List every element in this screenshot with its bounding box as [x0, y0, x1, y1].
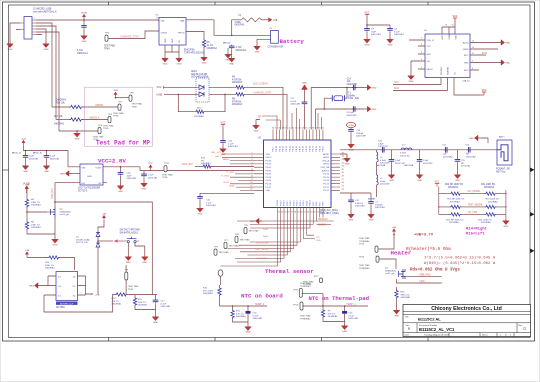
svg-text:MECD2A: MECD2A [404, 164, 413, 167]
ground GND ntc board [245, 324, 252, 333]
svg-text:PCBANT_SR: PCBANT_SR [496, 168, 510, 171]
ground GND shunt 2 [416, 173, 423, 182]
svg-text:J1 MICRO_USB: J1 MICRO_USB [33, 8, 52, 11]
svg-text:SWD_BAT: SWD_BAT [51, 187, 54, 199]
power VCC rf [435, 181, 440, 186]
svg-text:P0.13: P0.13 [300, 200, 302, 206]
svg-text:0201R/A2: 0201R/A2 [450, 200, 461, 203]
svg-text:1pF: 1pF [443, 154, 447, 156]
svg-text:P0.11: P0.11 [279, 145, 281, 151]
svg-text:P0.16: P0.16 [290, 200, 292, 206]
svg-text:1500pF: 1500pF [375, 204, 383, 206]
border zone tick top [109, 2, 429, 5]
fuse F1 [235, 15, 262, 27]
svg-text:VOUT: VOUT [95, 168, 102, 170]
svg-text:DP: DP [258, 117, 262, 119]
ground GND under TP4 wire [74, 130, 81, 140]
svg-text:R(heater)=5.5 Ohm: R(heater)=5.5 Ohm [406, 247, 451, 252]
title file label [405, 315, 410, 318]
net label SWD_BAT 2 [182, 163, 194, 166]
svg-text:SDA/SA0: SDA/SA0 [447, 66, 450, 75]
svg-text:0201L-N2: 0201L-N2 [400, 155, 410, 157]
net label SDA [394, 87, 399, 90]
svg-text:0402R/A1: 0402R/A1 [201, 162, 212, 165]
svg-text:P0.23: P0.23 [323, 184, 329, 186]
svg-text:0402C/A1: 0402C/A1 [29, 157, 39, 160]
svg-text:19: 19 [297, 212, 299, 214]
net arrow to SW [114, 239, 125, 243]
svg-text:MECD2A: MECD2A [376, 164, 385, 167]
svg-text:AVDD: AVDD [323, 153, 329, 156]
svg-text:ANT2: ANT2 [323, 156, 329, 159]
power VCC top [365, 12, 370, 17]
label LED1 [191, 71, 208, 79]
label Thermal sensor [265, 268, 314, 275]
resistor R16 10k [52, 99, 83, 109]
svg-text:TP11: TP11 [164, 163, 170, 165]
resistor R18b [485, 192, 497, 195]
wire ldo rail [24, 146, 77, 167]
capacitor C socket 0.1uF [33, 151, 60, 163]
connector J1 MICRO_USB [20, 17, 36, 40]
svg-text:RES: RES [464, 63, 469, 65]
power +UB diode [98, 213, 107, 232]
svg-text:0.1uF: 0.1uF [348, 315, 354, 317]
IC U2 MCU QFN-48 [264, 140, 332, 208]
svg-text:MECD2: MECD2 [223, 43, 231, 45]
svg-text:0402C/A1: 0402C/A1 [127, 177, 138, 180]
power VCC below U4 [480, 90, 487, 95]
testpad TP1 [125, 265, 139, 295]
wire ladder rails [438, 187, 507, 219]
svg-text:P0.03: P0.03 [266, 174, 272, 176]
testpad TP5 [129, 93, 142, 109]
wire SCL [393, 84, 441, 86]
svg-text:220K 1%: 220K 1% [45, 265, 54, 267]
svg-text:P0.15: P0.15 [293, 145, 295, 151]
wire U5 gnd pins [165, 45, 179, 56]
svg-text:LGA-16: LGA-16 [462, 80, 470, 83]
svg-text:SDI/SDO: SDI/SDO [441, 66, 443, 75]
wire LED2 to U2 [245, 94, 287, 129]
svg-text:0201C/A2: 0201C/A2 [461, 165, 471, 168]
label J2 part [268, 47, 285, 49]
ground GND under R40 [393, 308, 400, 317]
transistor Q1 [399, 269, 406, 279]
svg-text:P0.12: P0.12 [283, 145, 285, 151]
svg-text:I=3.7/(5.5+0.062+0.15)=0.645 A: I=3.7/(5.5+0.062+0.15)=0.645 A [424, 255, 496, 260]
svg-text:MECD_A: MECD_A [33, 151, 42, 154]
title company [431, 306, 502, 312]
resistor R8 220K [25, 221, 41, 230]
label NTC on board [241, 293, 283, 300]
svg-text:VDD: VDD [266, 154, 271, 156]
svg-text:GND: GND [118, 191, 123, 193]
capacitor C7 4.7uF at BAT [223, 43, 247, 57]
wire J1 D- down [36, 26, 56, 120]
svg-text:9: 9 [472, 61, 473, 63]
svg-text:17: 17 [291, 212, 293, 214]
ground GND under C3 [364, 37, 371, 46]
ground GND under cap b [22, 164, 29, 173]
label Rheater [406, 247, 451, 252]
net label TEST_MODE2 [255, 249, 269, 251]
wire R12 to U2 [212, 165, 254, 167]
svg-text:TEST PAD: TEST PAD [104, 45, 115, 48]
power arrow at TP11 rail [148, 163, 153, 171]
svg-text:VCC: VCC [453, 16, 458, 18]
svg-text:Chicony Electronics Co., Ltd: Chicony Electronics Co., Ltd [431, 306, 502, 312]
svg-text:LED1: LED1 [191, 71, 197, 73]
switch SW1 tact [125, 237, 145, 255]
svg-text:0402C/A1: 0402C/A1 [228, 145, 239, 148]
svg-text:GND: GND [372, 88, 377, 90]
svg-text:0201C/A2: 0201C/A2 [443, 155, 454, 158]
svg-text:+UB: +UB [25, 250, 30, 252]
svg-text:GND: GND [254, 130, 259, 132]
wire J1 gnd [16, 29, 46, 42]
svg-text:100K 1%: 100K 1% [138, 302, 147, 304]
svg-text:P0.26: P0.26 [323, 174, 329, 176]
svg-text:B1115C2 AL: B1115C2 AL [418, 317, 441, 322]
svg-text:16: 16 [445, 25, 447, 27]
ground GND under C1x [141, 181, 148, 190]
svg-text:NC: NC [98, 183, 102, 185]
wire U6 EN to Q2 [55, 183, 76, 207]
net label SWDCLK [317, 219, 334, 221]
ground GND ladder [503, 219, 510, 228]
svg-text:GND: GND [503, 226, 508, 228]
resistor R17 10k [54, 116, 83, 126]
svg-text:22: 22 [307, 212, 309, 214]
wire TP15 net [302, 294, 323, 306]
svg-text:TP13: TP13 [359, 244, 365, 246]
capacitor C19 [348, 128, 366, 142]
svg-text:4.3nH: 4.3nH [380, 160, 386, 162]
svg-text:GND: GND [505, 43, 510, 45]
svg-text:FUSE: FUSE [235, 22, 242, 24]
capacitor C18 10uF [118, 171, 137, 184]
wire RF main [340, 149, 497, 151]
wire U3 right node [86, 276, 100, 296]
svg-text:TEST PAD: TEST PAD [300, 315, 311, 318]
capacitor C12 0.047uF [348, 199, 365, 213]
net label SWD_BAT vertical [51, 187, 54, 199]
wire R23 to U3 [60, 258, 75, 271]
net bubble +UB3 [346, 122, 355, 127]
svg-text:GND: GND [255, 51, 260, 53]
svg-text:0201R/A2: 0201R/A2 [449, 221, 460, 224]
svg-text:TPNEW80: TPNEW80 [359, 241, 370, 243]
svg-text:P0.24: P0.24 [323, 180, 329, 182]
svg-text:GND: GND [469, 138, 474, 140]
svg-text:+UB: +UB [273, 20, 278, 22]
svg-text:0201R/A2: 0201R/A2 [232, 103, 243, 106]
wire J1 ID down [36, 32, 59, 131]
svg-text:CON-B934-00F: CON-B934-00F [268, 47, 285, 49]
inductor L2 10nH [368, 162, 391, 201]
ground GND near antenna [469, 135, 488, 143]
capacitor C socket 10uF [12, 152, 39, 163]
svg-text:0.8pF: 0.8pF [378, 143, 384, 145]
net label TEMP_1 [346, 303, 356, 306]
capacitor C3 10uF [364, 27, 381, 37]
svg-text:GND: GND [177, 63, 182, 65]
svg-text:0402C/NF: 0402C/NF [347, 115, 358, 117]
led LED1 bi-color [196, 78, 209, 102]
svg-text:VCC: VCC [435, 181, 440, 183]
svg-text:SW-TACT 4P5T/8M: SW-TACT 4P5T/8M [120, 229, 140, 232]
svg-text:0402C/A1: 0402C/A1 [375, 206, 386, 209]
svg-text:CHGB: CHGB [161, 33, 168, 35]
svg-text:EMC2F5A: EMC2F5A [184, 49, 195, 52]
ground GND right of C14 [364, 85, 376, 91]
inductor L3 3.3nH [400, 144, 412, 157]
net label TXD2 [263, 229, 269, 231]
power +UB heater [392, 227, 397, 236]
wire VCC caps [366, 18, 390, 28]
ground GND under U5 b [176, 56, 183, 65]
capacitor C10 [197, 195, 216, 207]
svg-text:TP16: TP16 [293, 305, 299, 307]
svg-text:TEST_MODE: TEST_MODE [255, 249, 269, 251]
svg-text:STRB: STRB [449, 34, 451, 40]
svg-text:0402F/A1: 0402F/A1 [235, 24, 246, 27]
net label UX_RXD5 [257, 258, 268, 260]
svg-text:Battery: Battery [280, 38, 305, 45]
svg-text:R13 100K 5%: R13 100K 5% [478, 219, 492, 221]
svg-text:SWDIO: SWDIO [318, 224, 326, 226]
svg-text:R16 NP 100K 5%: R16 NP 100K 5% [447, 199, 464, 201]
svg-text:CHARGE_STAT: CHARGE_STAT [120, 34, 139, 38]
resistor R14 [450, 213, 462, 216]
svg-text:VCC: VCC [157, 87, 162, 89]
svg-text:GND: GND [44, 49, 49, 51]
svg-text:1: 1 [421, 38, 422, 40]
svg-text:GND: GND [226, 59, 231, 61]
resistor R23 220K [45, 256, 60, 270]
svg-text:GND: GND [365, 44, 370, 46]
net label I2C_MODE [468, 190, 481, 193]
svg-text:8: 8 [472, 68, 473, 70]
svg-text:+UB: +UB [392, 227, 397, 229]
ground GND under C6 [81, 34, 88, 43]
svg-text:BAT: BAT [180, 20, 185, 23]
svg-text:TP40: TP40 [162, 177, 168, 179]
svg-text:GND: GND [394, 315, 399, 317]
svg-text:TEST PAD: TEST PAD [93, 135, 104, 138]
power VUSB label mid [23, 183, 30, 194]
ground GND shunt 3 [454, 173, 461, 182]
ground GND under R5 [201, 55, 208, 64]
border zone arrow right 2 [530, 212, 535, 217]
label R14 Right [466, 227, 487, 237]
wire TP13 to UB [378, 235, 394, 250]
capacitor C20 0.8pF [378, 141, 389, 153]
svg-text:16MHz: 16MHz [348, 95, 356, 97]
wire diode mid to switch [97, 240, 113, 242]
svg-text:2: 2 [421, 44, 422, 46]
svg-text:ACD: ACD [427, 53, 432, 56]
svg-text:SOT23_150: SOT23_150 [76, 242, 89, 244]
capacitor C15 [342, 311, 359, 324]
svg-text:GND: GND [229, 63, 234, 65]
net label SCL [394, 81, 399, 84]
svg-text:0402R/A1: 0402R/A1 [236, 315, 247, 318]
svg-text:ACT1: ACT1 [441, 34, 444, 39]
svg-text:+UB: +UB [95, 294, 100, 296]
labels ladder bottom [446, 219, 491, 224]
ground GND under J1 right [43, 42, 50, 51]
net label TEST_MODE [468, 203, 483, 206]
label U2 ref [258, 138, 262, 140]
label Rds [410, 267, 460, 272]
label SW1 [120, 229, 140, 235]
title name [418, 317, 441, 322]
resistor R10 NTC thermistor [203, 285, 221, 306]
ground GND under C19 [348, 142, 355, 151]
svg-text:GND: GND [29, 286, 34, 288]
svg-text:0402R/A1: 0402R/A1 [138, 304, 148, 307]
svg-text:LED-0402x2(R4): LED-0402x2(R4) [191, 77, 208, 79]
resistor R12 0R [201, 158, 212, 169]
svg-text:TEST PAD: TEST PAD [229, 244, 239, 247]
ground GND under J1 left [7, 42, 14, 51]
U2 pin numbers [250, 127, 344, 213]
resistor R18a [450, 192, 462, 195]
testpad TP12 stem [218, 270, 223, 285]
capacitor C4 0.1uF [387, 27, 404, 37]
ground GND under C2 [368, 212, 375, 221]
svg-text:GND: GND [163, 63, 168, 65]
svg-text:TEST_MODE: TEST_MODE [468, 203, 483, 206]
testpad TP15 [293, 282, 311, 297]
resistor R13 [485, 213, 497, 216]
wire Q1 gate net [397, 279, 442, 283]
U2 pin names [266, 145, 330, 206]
pin numbers U4 right [472, 41, 474, 71]
wire TP5 [115, 97, 129, 99]
resistor R5 1k [202, 39, 217, 50]
svg-text:LDO TLV70228DSER: LDO TLV70228DSER [78, 188, 100, 190]
net label SWDIO [317, 224, 332, 226]
svg-text:TPNEW80: TPNEW80 [300, 286, 311, 288]
wire F1 to +UB [261, 19, 268, 21]
wire U4 pin4 gnd [410, 61, 412, 74]
svg-text:ANT1: ANT1 [323, 163, 329, 166]
svg-text:P0.23: P0.23 [319, 145, 321, 151]
inductor L1 4.3nH [377, 150, 391, 165]
svg-text:0201C-N2: 0201C-N2 [378, 146, 389, 148]
wire U5 BAT net [186, 20, 271, 36]
svg-text:12: 12 [472, 41, 474, 43]
svg-text:UWDIO: UWDIO [95, 104, 103, 107]
testpad TP8 [224, 240, 239, 249]
capacitor shunt 1 [376, 150, 405, 173]
svg-text:R15=Left: R15=Left [466, 232, 485, 237]
svg-text:P0.17: P0.17 [299, 145, 301, 151]
svg-text:1.0pF: 1.0pF [423, 160, 429, 162]
ground GND fan left [250, 218, 262, 224]
svg-text:5: 5 [421, 67, 422, 69]
U2 top pin stubs [273, 130, 323, 141]
wire R5 gnd [203, 48, 205, 55]
svg-text:MOSI: MOSI [223, 182, 229, 184]
label D1 [76, 237, 91, 245]
svg-text:1k 1%: 1k 1% [207, 45, 213, 47]
resistor R19 [485, 205, 497, 208]
svg-text:VSS_A: VSS_A [322, 159, 330, 162]
ground GND under C10 [197, 206, 204, 215]
svg-text:sot23_gfs: sot23_gfs [60, 213, 70, 216]
svg-text:+UB: +UB [102, 213, 107, 215]
svg-text:GND: GND [372, 109, 377, 111]
svg-text:P0.20: P0.20 [277, 200, 279, 206]
wire U4 top pins [442, 21, 455, 34]
svg-text:1uF: 1uF [347, 81, 352, 83]
svg-text:220K 1%: 220K 1% [31, 224, 40, 226]
testpad TP4 [93, 125, 104, 141]
svg-text:VDD_IO: VDD_IO [427, 40, 435, 42]
resistor R22 [194, 108, 205, 118]
svg-text:TP40: TP40 [113, 116, 119, 118]
svg-text:SOT363: SOT363 [56, 307, 65, 309]
svg-text:GND: GND [8, 49, 13, 51]
svg-text:0.1uF: 0.1uF [253, 315, 259, 317]
svg-text:Sheet: Sheet [482, 334, 488, 337]
capacitor shunt 3 [455, 150, 471, 173]
resistor R4 470R [232, 77, 245, 90]
svg-text:0402R/A1: 0402R/A1 [203, 292, 214, 295]
net label UX_TXD [468, 211, 478, 214]
svg-text:VCT: VCT [427, 46, 432, 48]
svg-text:0402R/A1: 0402R/A1 [31, 204, 42, 207]
svg-text:0201R/A2: 0201R/A2 [481, 221, 492, 224]
label I formula [424, 255, 496, 260]
resistor R11 47K [231, 306, 248, 322]
ground GND left of U6 [60, 171, 80, 177]
svg-text:[ QR ]: [ QR ] [419, 280, 426, 283]
svg-text:TP40: TP40 [93, 139, 99, 141]
svg-text:TPNEW80: TPNEW80 [359, 268, 370, 270]
wire TP6 to U5 CHGB [109, 31, 160, 39]
svg-text:TEMP_2: TEMP_2 [255, 303, 265, 306]
title doc label [419, 324, 438, 327]
svg-text:3: 3 [421, 52, 422, 54]
net label INT2 [482, 53, 488, 55]
border zone tick left [3, 169, 9, 171]
svg-text:+UB: +UB [113, 90, 118, 92]
svg-text:P0.01: P0.01 [266, 167, 272, 169]
wire LED anode 2 [209, 93, 235, 95]
svg-text:AVDD2: AVDD2 [322, 169, 330, 172]
svg-text:0402C/A1: 0402C/A1 [348, 317, 359, 320]
svg-text:LED BI-COLOR: LED BI-COLOR [191, 74, 208, 76]
svg-text:SEG8B: SEG8B [368, 199, 376, 201]
svg-text:0R: 0R [201, 160, 204, 162]
wire R8 gnd [27, 217, 55, 237]
svg-text:AREF: AREF [223, 158, 229, 161]
svg-text:SRD5: SRD5 [463, 49, 469, 51]
svg-text:CHARGE_STAT: CHARGE_STAT [253, 91, 272, 94]
svg-text:GND: GND [82, 41, 87, 43]
ground GND at DP [253, 120, 260, 133]
svg-text:VIN: VIN [161, 21, 165, 23]
capacitor C16 [246, 306, 264, 324]
svg-text:0.1uF: 0.1uF [148, 175, 154, 177]
svg-text:0402C/A1: 0402C/A1 [50, 157, 60, 160]
capacitor shunt 2 [404, 150, 433, 173]
